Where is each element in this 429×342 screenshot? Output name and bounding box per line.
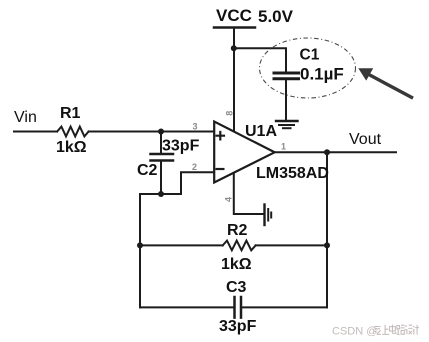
svg-text:CSDN @: CSDN @ <box>332 326 377 338</box>
svg-text:0.1µF: 0.1µF <box>300 65 344 84</box>
svg-text:C1: C1 <box>300 47 320 64</box>
svg-text:4: 4 <box>224 197 234 202</box>
svg-text:R2: R2 <box>227 222 248 239</box>
svg-text:1kΩ: 1kΩ <box>221 256 252 273</box>
svg-text:1: 1 <box>281 142 286 152</box>
svg-text:8: 8 <box>225 111 235 116</box>
svg-text:2: 2 <box>192 162 197 172</box>
svg-text:3: 3 <box>193 122 198 132</box>
svg-text:C3: C3 <box>226 279 247 296</box>
svg-text:VCC: VCC <box>216 6 252 25</box>
svg-text:33pF: 33pF <box>162 138 200 155</box>
svg-text:C2: C2 <box>137 162 158 179</box>
svg-text:5.0V: 5.0V <box>258 7 294 26</box>
svg-text:Vin: Vin <box>14 109 37 126</box>
svg-text:R1: R1 <box>60 105 81 122</box>
svg-text:1kΩ: 1kΩ <box>56 139 87 156</box>
svg-text:Vout: Vout <box>349 131 382 148</box>
svg-text:LM358AD: LM358AD <box>256 165 329 182</box>
svg-text:33pF: 33pF <box>219 318 257 335</box>
svg-text:U1A: U1A <box>245 123 277 140</box>
